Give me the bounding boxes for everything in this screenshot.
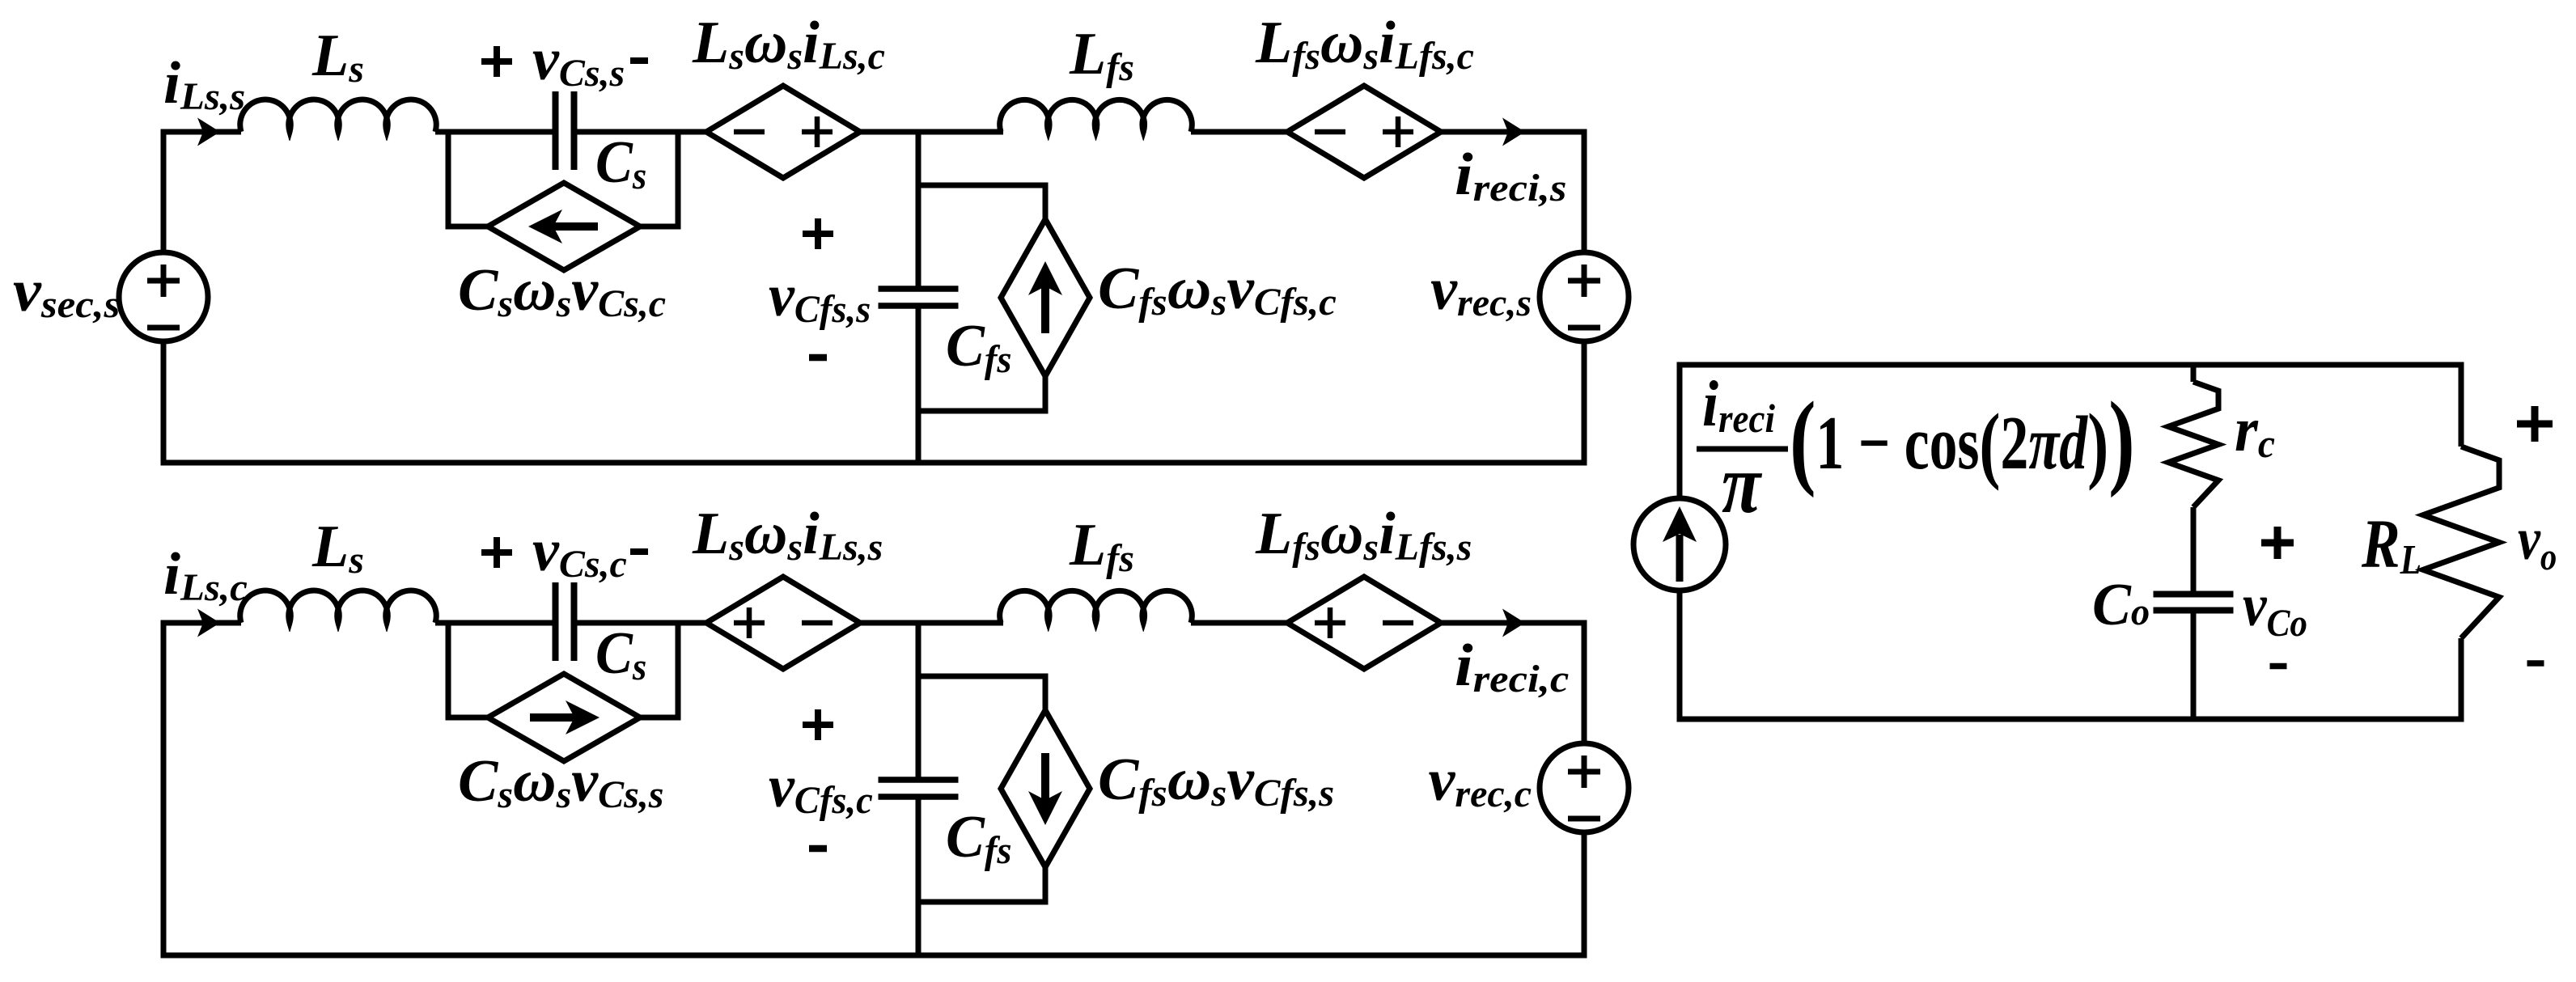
current arrow i_Ls,s (197, 118, 220, 146)
label v_o with +/- (2517, 421, 2553, 428)
label v_Co with +/- (2261, 540, 2294, 547)
inductor L_s (240, 590, 436, 623)
wire: left rail (161, 129, 167, 253)
current source i_reci/pi (1-cos(2 pi d)) (1633, 498, 1726, 590)
wire: C_s branch left (446, 623, 451, 721)
wire: C_s branch right (676, 132, 681, 230)
voltage source v_rec (1540, 252, 1629, 341)
dependent current source C_fs w_s (diamond) (1001, 219, 1090, 376)
wire: C_s branch left (446, 132, 451, 230)
current arrow i_reci (1502, 118, 1525, 146)
label (1-cos(2 pi d)) (1790, 381, 2135, 499)
wire: left rail (1677, 362, 1683, 499)
wire (1191, 620, 1287, 626)
capacitor C_s (553, 582, 559, 661)
wire: bottom (161, 460, 1587, 466)
wire: C_fs source branch (918, 183, 1045, 188)
wire: top (1677, 362, 2464, 368)
capacitor C_s (553, 91, 559, 170)
resistor R_L (2459, 362, 2464, 447)
voltage source v_sec,s (119, 252, 208, 341)
wire (1441, 620, 1587, 626)
inductor L_fs (1000, 99, 1193, 132)
voltage source v_rec (1540, 743, 1629, 832)
label + v_Cs - (481, 549, 512, 556)
wire: right rail (1582, 620, 1587, 744)
wire (573, 620, 706, 626)
wire (573, 129, 706, 135)
dependent current source C_s w_s (diamond) (488, 674, 640, 761)
wire: top left segment (161, 620, 242, 626)
wire: bottom (161, 953, 1587, 959)
capacitor C_fs (879, 777, 959, 783)
dependent current source C_fs w_s (diamond) (1001, 710, 1090, 867)
wire: C_s branch right (676, 623, 681, 721)
wire (435, 129, 557, 135)
wire (1191, 129, 1287, 135)
wire (860, 129, 1003, 135)
inductor L_s (240, 99, 437, 132)
label v_Cfs with +/- (803, 231, 833, 237)
label v_Cfs with +/- (803, 722, 833, 728)
capacitor C_fs (879, 286, 959, 292)
svg-text:π: π (1722, 437, 1762, 530)
current arrow i_Ls,c (197, 609, 220, 637)
wire: bottom (1677, 717, 2464, 722)
wire (860, 620, 1003, 626)
wire: top left segment (161, 129, 242, 135)
capacitor C_o (2154, 591, 2234, 598)
wire (1441, 129, 1587, 135)
label + v_Cs - (481, 58, 512, 65)
dependent voltage source L_s w_s i_Ls (diamond) (706, 86, 860, 178)
current arrow i_reci (1502, 609, 1525, 637)
wire: right rail (1582, 129, 1587, 253)
dependent current source C_s w_s (diamond) (488, 183, 640, 270)
dependent voltage source L_fs w_s i_Lfs (diamond) (1287, 577, 1441, 669)
inductor L_fs (1000, 590, 1193, 623)
dependent voltage source L_s w_s i_Ls (diamond) (706, 577, 860, 669)
wire (435, 620, 557, 626)
wire: C_fs source branch (918, 674, 1045, 679)
dependent voltage source L_fs w_s i_Lfs (diamond) (1287, 86, 1441, 178)
wire: shunt C_fs branch (916, 132, 922, 289)
resistor r_c (2191, 362, 2197, 383)
wire: shunt C_fs branch (916, 623, 922, 780)
wire: left rail (161, 620, 167, 959)
